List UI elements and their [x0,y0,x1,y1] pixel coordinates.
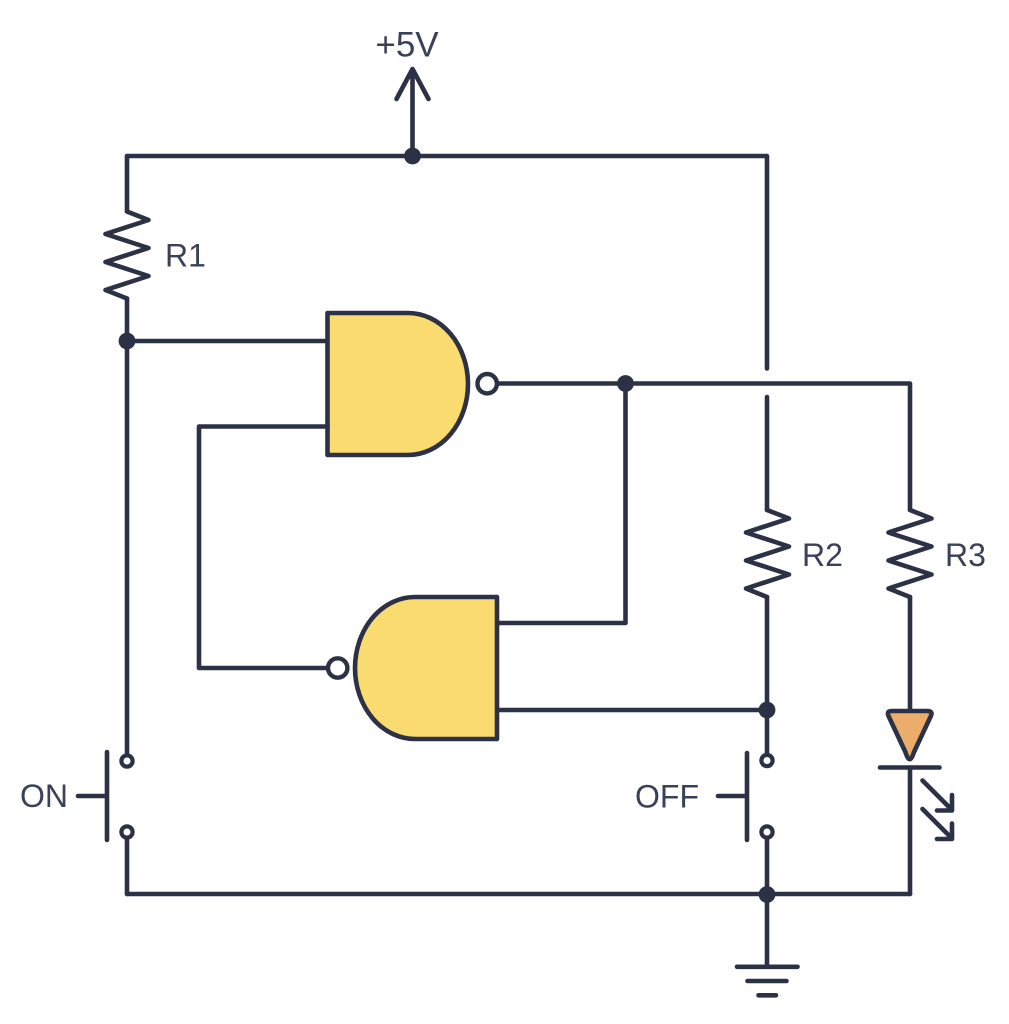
junction: node Q [617,375,634,392]
wire: bottom rail to ground [765,894,770,965]
wire: LED cathode to bottom rail [908,768,913,895]
resistor R1 [106,212,149,299]
resistor R2 [746,510,789,597]
wire: ON switch to bottom rail [125,840,130,895]
wire: U1 output to node Q [498,381,626,386]
junction: bottom rail / ground [759,886,776,903]
wire: bottom rail (ground bus) [127,892,910,897]
LED D1 [880,711,940,768]
inversion bubble U1 [478,374,497,393]
svg-text:R3: R3 [945,537,986,573]
wire: U2 lower input to node B [498,708,767,713]
wire: node Q to gate U2 upper input [498,384,626,624]
svg-text:OFF: OFF [635,779,699,815]
wire: R2 to node B [765,597,770,710]
+5V supply arrow [397,69,429,156]
svg-text:R2: R2 [802,537,843,573]
wire: node Q to R3 branch [626,384,911,511]
wire: rail to R2 (below crossover gap) [765,397,770,510]
ground [737,967,798,996]
wire: node B to OFF switch [765,710,770,753]
wire: U2 output feedback to U1 lower input [199,427,328,669]
LED light emission arrows [923,781,953,840]
NAND gate U1 [328,313,469,455]
wire: R3 to LED anode [908,597,913,709]
wire: node A to gate U1 input [127,339,328,344]
junction: node B [759,702,776,719]
wire: OFF switch to bottom rail [765,840,770,895]
pushbutton OFF [718,753,773,840]
junction: +5V stem / top rail [404,148,421,165]
svg-text:+5V: +5V [375,26,439,65]
svg-text:R1: R1 [165,238,206,274]
wire: top rail (+5V bus) [127,156,767,369]
wire: node A down to ON switch [125,341,130,753]
inversion bubble U2 [328,658,347,677]
pushbutton ON [78,752,133,840]
resistor R3 [889,510,932,597]
NAND gate U2 (mirrored) [355,597,497,739]
svg-text:ON: ON [20,778,68,814]
junction: node A [119,333,136,350]
wire: R1 to node A [125,299,130,342]
